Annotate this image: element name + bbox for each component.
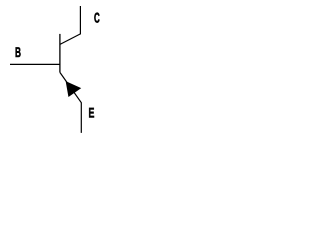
base bar of Q1 [59, 34, 61, 73]
wire: base lead [10, 63, 60, 65]
svg-text:C: C [94, 10, 100, 26]
svg-text:B: B [15, 44, 21, 60]
transistor Q1 (PNP) [10, 6, 100, 133]
wire: collector diagonal of Q1 [60, 34, 80, 45]
wire: emitter diagonal of Q1 [60, 72, 81, 132]
wire: collector lead [79, 6, 81, 34]
svg-text:E: E [89, 105, 95, 121]
emitter arrow (PNP, pointing toward base) [66, 82, 80, 96]
